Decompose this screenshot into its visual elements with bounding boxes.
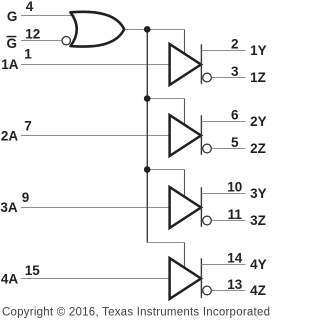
svg-text:12: 12 <box>25 26 40 41</box>
buffer U4 triangle <box>170 258 201 299</box>
buffer U4 output bar <box>200 258 202 298</box>
svg-text:10: 10 <box>227 180 242 195</box>
wire OR output to enable corner <box>124 29 185 31</box>
wire 2A input <box>21 135 169 137</box>
node junction dot branch 2 <box>144 95 151 102</box>
wire 2Z output <box>212 148 246 150</box>
wire 3Z output <box>212 220 246 222</box>
svg-text:1Y: 1Y <box>250 43 267 58</box>
svg-text:1A: 1A <box>1 57 19 72</box>
wire enable branch 3 horizontal <box>147 169 185 171</box>
buffer U3 output bar <box>200 187 202 227</box>
svg-text:11: 11 <box>228 207 243 222</box>
wire 1Y output <box>201 50 245 52</box>
buffer U3 inverting bubble <box>203 216 212 225</box>
wire enable branch 4 horizontal <box>147 242 185 244</box>
svg-text:3A: 3A <box>0 200 18 215</box>
buffer U2 output bar <box>200 115 202 155</box>
wire enable drop 4 <box>184 243 186 270</box>
svg-text:4Y: 4Y <box>250 257 267 272</box>
wire enable rail vertical <box>146 30 148 243</box>
buffer U3 triangle <box>170 187 201 228</box>
wire enable branch 2 horizontal <box>147 98 185 100</box>
wire enable drop 2 <box>184 99 186 127</box>
svg-text:3Y: 3Y <box>250 186 267 201</box>
wire G input <box>21 15 74 17</box>
svg-text:4Z: 4Z <box>250 283 266 298</box>
svg-text:2Y: 2Y <box>250 114 267 129</box>
node junction dot branch 3 <box>144 166 151 173</box>
buffer U4 inverting bubble <box>203 286 212 295</box>
wire 3A input <box>21 207 169 209</box>
svg-text:2: 2 <box>231 37 239 52</box>
svg-text:13: 13 <box>227 277 243 292</box>
wire 3Y output <box>201 193 245 195</box>
svg-text:4A: 4A <box>1 271 19 286</box>
wire 4Y output <box>201 264 245 266</box>
svg-text:4: 4 <box>26 0 34 14</box>
svg-text:1Z: 1Z <box>250 70 266 85</box>
svg-text:2Z: 2Z <box>250 141 266 156</box>
svg-text:G: G <box>7 9 18 24</box>
wire G-bar input <box>21 40 61 42</box>
wire 2Y output <box>201 121 245 123</box>
wire enable drop 1 <box>184 30 186 56</box>
svg-text:1: 1 <box>24 47 32 62</box>
wire 1Z output <box>212 77 246 79</box>
svg-text:G: G <box>6 36 17 51</box>
wire 4Z output <box>212 290 246 292</box>
svg-text:7: 7 <box>24 119 32 134</box>
svg-text:Copyright © 2016, Texas Instru: Copyright © 2016, Texas Instruments Inco… <box>2 306 270 318</box>
wire 4A input <box>21 278 169 280</box>
svg-text:3Z: 3Z <box>250 213 266 228</box>
svg-text:3: 3 <box>231 64 239 79</box>
svg-text:15: 15 <box>25 263 41 278</box>
OR gate G1 <box>71 12 125 47</box>
buffer U2 triangle <box>170 115 201 156</box>
svg-text:2A: 2A <box>1 129 19 144</box>
buffer U1 inverting bubble <box>203 73 212 82</box>
buffer U1 output bar <box>200 44 202 84</box>
svg-text:5: 5 <box>231 135 239 150</box>
wire enable drop 3 <box>184 170 186 199</box>
buffer U2 inverting bubble <box>203 144 212 153</box>
wire 1A input <box>21 64 169 66</box>
svg-text:14: 14 <box>227 251 243 266</box>
svg-text:9: 9 <box>22 190 30 205</box>
OR gate input bubble (G-bar) <box>62 37 70 45</box>
svg-text:6: 6 <box>231 108 239 123</box>
node junction dot OR output <box>144 26 151 33</box>
buffer U1 triangle <box>170 44 201 85</box>
